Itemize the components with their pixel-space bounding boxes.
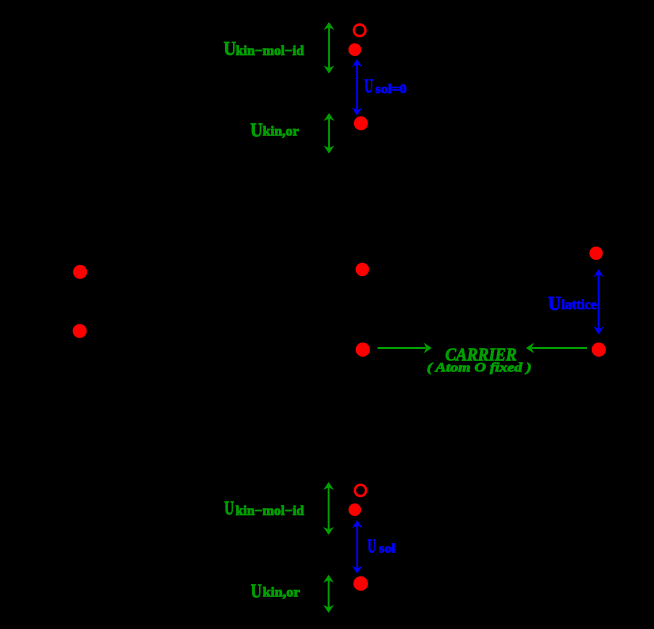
svg-text:U: U [548,293,561,315]
blue double arrow U_sol (bottom) [352,520,362,574]
svg-text:kin,or: kin,or [263,585,300,600]
blue double arrow U_sol=0 (top) [352,59,362,116]
red dot: right lower site [592,343,606,357]
red dot: muonium level top [348,43,361,56]
svg-text:U: U [364,75,373,97]
label U_kin-mol-id (bottom) [224,498,304,520]
red dot: left lower site [73,324,87,338]
label U_kin-mol-id (top) [224,38,305,60]
red dot: right upper site [589,247,602,260]
red dot: muonium level bottom [349,503,362,516]
open red circle (free muonium, bottom) [355,485,366,496]
blue double arrow U_lattice [593,269,603,335]
svg-text:kin−mol−id: kin−mol−id [236,503,305,518]
label U_lattice [548,293,597,315]
green double arrow U_kin,or (bottom) [323,575,334,613]
red dot: solution level top [354,116,368,130]
open red circle (free muonium, top) [354,25,366,37]
green double arrow U_kin,or (top) [324,113,335,154]
green arrow to CARRIER (from right dot) [526,343,587,354]
label U_sol=0 (top) [364,75,406,97]
red dot: left upper site [73,265,87,279]
red dot: middle upper site [356,263,369,276]
svg-text:U: U [251,580,262,602]
svg-text:lattice: lattice [561,298,597,313]
svg-text:sol=0: sol=0 [375,81,406,96]
red dot: middle lower site (carrier) [356,343,370,357]
svg-text:U: U [224,498,234,520]
red dot: solution level bottom [353,576,368,591]
svg-text:U: U [367,536,376,558]
green double arrow U_kin-mol-id (top) [324,22,335,74]
green arrow to CARRIER (from middle dot) [378,343,432,354]
green double arrow U_kin-mol-id (bottom) [323,482,334,535]
svg-text:kin−mol−id: kin−mol−id [236,43,305,58]
label U_sol (bottom) [367,536,395,558]
label U_kin,or (top) [250,119,299,141]
label U_kin,or (bottom) [251,580,300,602]
svg-text:sol: sol [379,540,396,555]
svg-text:U: U [224,38,237,60]
svg-text:U: U [250,119,263,141]
svg-text:( Atom O fixed ): ( Atom O fixed ) [427,361,532,375]
svg-text:kin,or: kin,or [263,123,299,138]
